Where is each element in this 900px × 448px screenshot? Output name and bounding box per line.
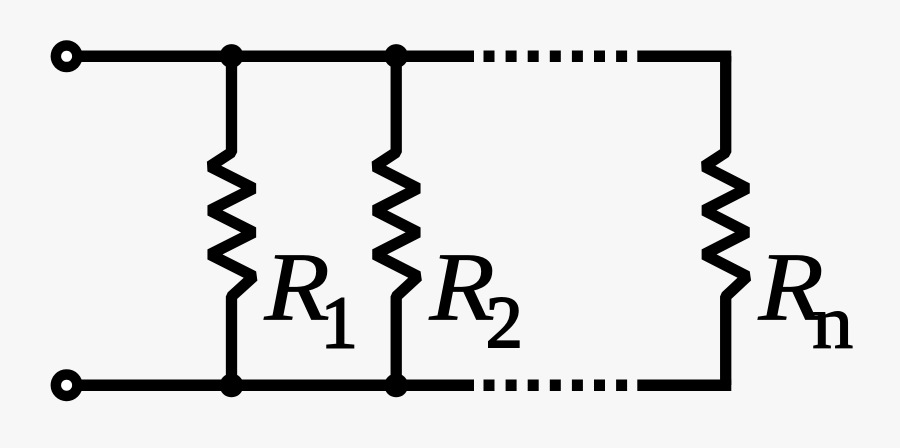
label R2 [428, 234, 522, 364]
terminal: top-left open terminal [51, 40, 83, 72]
wire: bottom rail left solid segment [67, 379, 474, 391]
svg-text:1: 1 [321, 282, 358, 364]
label R1 [263, 234, 357, 364]
label Rn [757, 234, 853, 364]
wire: top rail left solid segment [67, 51, 474, 63]
wire: bottom rail right solid segment [637, 379, 731, 391]
wire: bottom rail dotted segment [484, 379, 638, 391]
node: junction dot R2 top [384, 44, 408, 68]
svg-text:2: 2 [486, 282, 523, 364]
node: junction dot R1 top [220, 44, 244, 68]
terminal: bottom-left open terminal [51, 369, 83, 401]
wire: top rail dotted segment [484, 51, 638, 63]
resistor Rn [704, 56, 747, 385]
wire: top rail right solid segment [637, 51, 731, 63]
resistor R2 [375, 56, 418, 385]
resistor R1 [210, 56, 254, 385]
node: junction dot R1 bottom [220, 374, 244, 398]
node: junction dot R2 bottom [384, 374, 408, 398]
svg-text:n: n [812, 280, 853, 364]
